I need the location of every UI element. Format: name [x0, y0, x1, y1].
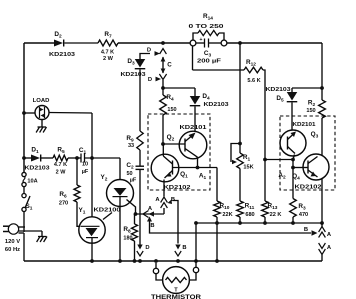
svg-text:KD2103: KD2103: [25, 166, 50, 172]
svg-text:KD2103: KD2103: [49, 52, 75, 58]
svg-text:B: B: [150, 223, 154, 229]
svg-text:10A: 10A: [27, 179, 37, 185]
svg-text:µF: µF: [130, 178, 137, 184]
svg-text:KD2103: KD2103: [266, 87, 291, 93]
svg-text:KD2103: KD2103: [121, 72, 146, 78]
svg-text:22K: 22K: [222, 212, 232, 218]
svg-text:50: 50: [126, 171, 132, 177]
svg-text:T: T: [174, 288, 178, 294]
svg-text:680: 680: [245, 212, 254, 218]
svg-text:470: 470: [299, 212, 308, 218]
svg-text:KD2100: KD2100: [94, 208, 121, 214]
svg-text:0 TO 250: 0 TO 250: [189, 24, 224, 30]
svg-text:4.7 K: 4.7 K: [101, 50, 114, 56]
svg-text:150: 150: [306, 108, 315, 114]
svg-text:4.7 K: 4.7 K: [54, 162, 67, 168]
svg-text:33: 33: [128, 143, 134, 149]
svg-text:10: 10: [82, 162, 88, 168]
svg-text:270: 270: [59, 201, 68, 207]
svg-text:KD2101: KD2101: [180, 125, 207, 131]
svg-text:KD2103: KD2103: [204, 102, 229, 108]
svg-text:LOAD: LOAD: [33, 98, 50, 104]
svg-text:D: D: [148, 77, 152, 83]
svg-text:B: B: [304, 227, 308, 233]
svg-text:KD2101: KD2101: [293, 122, 316, 128]
svg-text:B: B: [182, 245, 186, 251]
svg-text:D: D: [147, 48, 151, 54]
svg-text:µF: µF: [82, 169, 89, 175]
svg-text:2 W: 2 W: [56, 170, 67, 176]
svg-text:D: D: [145, 245, 149, 251]
svg-text:+: +: [200, 37, 203, 43]
svg-text:2 W: 2 W: [103, 56, 114, 62]
svg-text:60 Hz: 60 Hz: [5, 247, 20, 253]
svg-text:C: C: [167, 62, 172, 69]
svg-text:120 V: 120 V: [5, 239, 20, 245]
svg-text:200 µF: 200 µF: [197, 59, 222, 65]
svg-text:150: 150: [167, 107, 176, 113]
svg-text:5.6 K: 5.6 K: [247, 78, 260, 84]
svg-text:180: 180: [123, 236, 132, 242]
svg-text:22 K: 22 K: [270, 212, 282, 218]
svg-text:THERMISTOR: THERMISTOR: [151, 295, 202, 299]
svg-text:15K: 15K: [243, 165, 253, 171]
